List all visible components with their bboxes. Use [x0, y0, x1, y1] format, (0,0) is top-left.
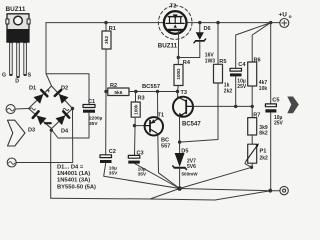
node R1 rail [104, 21, 107, 24]
wire to minus terminal [270, 190, 280, 192]
wire upper AC to bridge left [15, 108, 29, 111]
diode D2 [59, 94, 69, 104]
T2 mosfet arrow blob [173, 14, 178, 19]
svg-text:25V: 25V [274, 120, 284, 126]
svg-text:C3: C3 [137, 151, 144, 157]
resistor R2 [106, 91, 108, 93]
wire T3 emitter down [179, 116, 181, 142]
node T1 base / R3 bottom [133, 124, 136, 127]
output minus terminal [280, 186, 288, 194]
svg-text:10k: 10k [259, 86, 268, 92]
T2 mosfet gate bar [168, 29, 182, 31]
svg-text:D: D [15, 79, 19, 85]
svg-text:5k6: 5k6 [114, 90, 122, 96]
svg-text:5V6: 5V6 [187, 164, 196, 170]
svg-text:R7: R7 [253, 113, 260, 119]
wire T1 emitter [157, 92, 159, 120]
BUZ11 leg S [24, 43, 27, 75]
resistor R7 [251, 106, 253, 117]
BUZ11 package tab [7, 14, 29, 30]
T2 mosfet top bar [168, 16, 182, 18]
potentiometer P1 [248, 144, 257, 163]
node A R1/R2/C2 [104, 90, 107, 93]
svg-text:D2: D2 [61, 86, 68, 92]
wire R5 bottom to T3 emitter node [180, 83, 218, 142]
output plus terminal [280, 19, 289, 28]
node output minus junction [268, 189, 272, 193]
diode D3 [37, 116, 47, 126]
svg-text:R2: R2 [110, 83, 117, 89]
wire C2 [105, 92, 107, 155]
svg-text:R4: R4 [183, 60, 191, 66]
hollow block arrow [8, 120, 26, 146]
wire ground node to output minus junction [180, 189, 271, 191]
transistor T3 BC547 [173, 97, 193, 117]
svg-text:10µ: 10µ [109, 165, 117, 171]
ground node big junction [177, 186, 182, 191]
zener D6 [199, 23, 201, 33]
svg-text:35V: 35V [89, 121, 98, 127]
BUZ11 leg G [10, 43, 13, 75]
wire C1 bottom to bridge minus [51, 113, 89, 138]
BUZ11 package tab notch right [27, 19, 30, 24]
node C4 bottom / base line [234, 105, 237, 108]
wire C3 bottom to ground node [135, 164, 180, 189]
node T1 emitter top [156, 90, 159, 93]
svg-text:C2: C2 [109, 149, 116, 155]
svg-text:BC557: BC557 [142, 84, 160, 90]
capacitor C2 [100, 155, 112, 158]
svg-text:BY550-50 (5A): BY550-50 (5A) [57, 185, 96, 191]
wire T1 base [135, 125, 146, 127]
svg-text:D3: D3 [28, 128, 35, 134]
zener D5 [179, 142, 181, 153]
svg-text:R3: R3 [138, 95, 145, 101]
AC terminal upper [6, 105, 15, 114]
wire R2 to T3 collector node [129, 91, 178, 93]
transistor T2 BUZ11 dashed case circle [158, 6, 192, 40]
wire rail to R6 [252, 23, 271, 62]
bridge tilde right [63, 108, 69, 110]
BUZ11 package body [6, 30, 29, 43]
wire P1 bottom to ground node [180, 167, 252, 188]
svg-text:BUZ11: BUZ11 [158, 43, 178, 50]
top rail left segment [46, 22, 164, 24]
BUZ11 package tab notch left [6, 19, 9, 24]
resistor R6 [248, 62, 257, 86]
node R6 bottom / R7 top [251, 105, 254, 108]
T2 mosfet ticks [170, 17, 181, 24]
svg-text:R1: R1 [109, 26, 116, 32]
resistor R4 [177, 58, 179, 65]
svg-text:557: 557 [161, 144, 170, 150]
node bridge right vertex [71, 107, 74, 110]
wire lower AC to bridge right [16, 109, 72, 163]
transistor T1 BC557 [145, 117, 163, 135]
capacitor C5 [265, 104, 276, 107]
svg-text:o: o [289, 15, 292, 20]
svg-text:R6: R6 [254, 57, 261, 63]
bridge minus sign [45, 122, 51, 124]
svg-text:P1: P1 [260, 149, 267, 155]
BUZ11 leg D [17, 43, 20, 77]
wire bridge plus up to rail [46, 23, 52, 86]
svg-text:C1: C1 [88, 99, 95, 105]
svg-text:35V: 35V [138, 172, 147, 178]
solid page arrow right [287, 97, 299, 114]
svg-text:+: + [47, 88, 51, 95]
svg-text:100Ω: 100Ω [176, 68, 181, 80]
svg-text:2k2: 2k2 [224, 88, 233, 94]
svg-text:2k2: 2k2 [260, 156, 269, 162]
svg-text:C5: C5 [272, 98, 279, 104]
svg-text:T3: T3 [181, 90, 188, 96]
svg-text:+U: +U [279, 12, 288, 19]
wire rail to C5 [270, 23, 272, 104]
bridge diamond edges [29, 86, 73, 129]
diode D1 [34, 94, 44, 104]
wire T3 collector [177, 92, 179, 97]
svg-text:8k2: 8k2 [259, 131, 268, 137]
BUZ11 package hole [14, 16, 23, 25]
svg-text:1N4001 (1A): 1N4001 (1A) [57, 171, 90, 177]
svg-text:500mW: 500mW [182, 172, 199, 177]
wire bridge minus down [50, 129, 53, 198]
wire bottom rail to ground node [150, 189, 180, 200]
AC terminal lower [7, 158, 16, 167]
svg-text:D1: D1 [29, 86, 36, 92]
svg-text:25V: 25V [237, 84, 247, 90]
T2 substrate arrow [174, 24, 177, 27]
svg-text:2200µ: 2200µ [89, 116, 103, 122]
node P1 bottom [250, 166, 253, 169]
svg-text:3k2: 3k2 [104, 36, 110, 44]
node R5 rail [216, 21, 219, 24]
wire T2 gate down [177, 31, 179, 58]
svg-text:100k: 100k [133, 104, 138, 115]
resistor R3 [135, 92, 137, 103]
wire rail to C4 [236, 23, 271, 69]
node T3 collector / R4 bottom [176, 90, 179, 93]
bottom rail [51, 191, 271, 200]
svg-text:S: S [28, 73, 32, 79]
node T3 emitter / D5 / R5 [178, 140, 181, 143]
capacitor C3 [128, 155, 140, 158]
svg-text:T1: T1 [158, 113, 165, 119]
node gate / R4 / D6 [177, 56, 180, 59]
bridge tilde left [30, 108, 36, 110]
svg-text:R5: R5 [219, 59, 226, 65]
node rail fan [269, 21, 272, 24]
resistor R1 [105, 23, 107, 31]
svg-text:C4: C4 [238, 62, 246, 68]
svg-text:D1... D4 =: D1... D4 = [57, 165, 84, 171]
svg-text:16V: 16V [205, 53, 215, 59]
wire C1 top branch [46, 74, 89, 105]
svg-text:BUZ11: BUZ11 [6, 6, 26, 13]
node R3 top [134, 90, 137, 93]
svg-text:BC547: BC547 [182, 122, 201, 128]
svg-text:D6: D6 [204, 26, 211, 32]
svg-text:35V: 35V [109, 171, 118, 177]
top rail right segment [186, 22, 279, 24]
node bridge minus [50, 129, 53, 132]
resistor R5 [217, 23, 219, 65]
svg-text:T2: T2 [170, 4, 177, 10]
node D6 rail [198, 21, 201, 24]
capacitor C4 [230, 68, 242, 71]
svg-text:D4: D4 [61, 129, 69, 135]
capacitor C1 [83, 105, 95, 108]
svg-text:G: G [2, 73, 6, 79]
wire C2 bottom to ground node [104, 163, 180, 189]
T2 mosfet channel [166, 22, 184, 24]
diode D4 [56, 115, 66, 125]
svg-text:D5: D5 [181, 148, 188, 154]
wire T1 collector down to ground node [158, 134, 180, 189]
svg-text:1N5401 (3A): 1N5401 (3A) [57, 178, 90, 184]
transistor T2 BUZ11 body circle [164, 11, 187, 34]
wire T3 base line [193, 105, 252, 107]
